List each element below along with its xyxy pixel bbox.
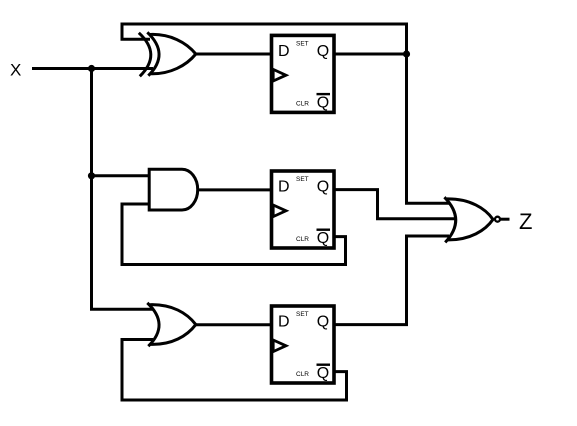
svg-text:SET: SET (296, 176, 309, 183)
nor-gate NOR1 output bubble (495, 217, 500, 222)
wire: FF1 Q down to NOR top input (407, 54, 450, 203)
svg-text:D: D (278, 43, 290, 60)
svg-text:Q: Q (317, 230, 329, 247)
node: junction FF1 Q feedback (403, 50, 410, 57)
svg-text:CLR: CLR (296, 100, 309, 107)
wire: FF2 Qbar feedback to AND bottom input (122, 204, 346, 265)
wire: NOR output to Z (501, 218, 510, 221)
svg-text:SET: SET (296, 311, 309, 318)
svg-text:X: X (10, 61, 21, 80)
d-flip-flop FF1 (272, 35, 335, 112)
svg-text:Q: Q (317, 94, 329, 111)
wire: XOR output to FF1 D (195, 53, 274, 56)
svg-text:D: D (278, 314, 290, 331)
d-flip-flop FF2 (272, 171, 335, 248)
svg-text:Z: Z (519, 209, 532, 234)
wire: FF1 Q output (334, 53, 407, 56)
wire: AND gate top input (92, 174, 154, 177)
nor-gate NOR1 (444, 197, 493, 242)
FF3 clock triangle (273, 340, 286, 352)
wire: FF2 Q to NOR middle input (334, 190, 456, 219)
FF2 clock triangle (273, 205, 286, 217)
wire: OR output to FF3 D (196, 323, 274, 326)
or-gate OR1 (147, 303, 196, 346)
FF1 clock triangle (273, 69, 286, 81)
wire: FF3 Q to NOR bottom input (334, 236, 449, 325)
svg-text:SET: SET (296, 40, 309, 47)
svg-text:Q: Q (317, 43, 329, 60)
svg-text:D: D (278, 179, 290, 196)
svg-text:Q: Q (317, 314, 329, 331)
wire: AND output to FF2 D (196, 188, 274, 191)
node: junction X / XOR branch (88, 65, 95, 72)
wire: X input to XOR bottom input (32, 67, 153, 70)
wire: feedback FF1 Q to XOR top input (122, 24, 407, 54)
xor-gate XOR1 (139, 32, 196, 76)
and-gate AND1 (149, 169, 198, 210)
svg-text:Q: Q (317, 179, 329, 196)
svg-text:Q: Q (317, 365, 329, 382)
d-flip-flop FF3 (272, 306, 335, 383)
node: junction X / AND branch (88, 172, 95, 179)
wire: FF3 Qbar feedback to OR bottom input (122, 340, 347, 401)
svg-text:CLR: CLR (296, 236, 309, 243)
wire: X vertical bus down to OR gate top input (92, 69, 154, 310)
svg-text:CLR: CLR (296, 371, 309, 378)
